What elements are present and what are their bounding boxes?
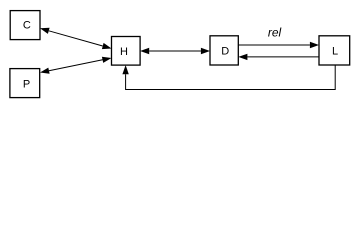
wire L-D (arrow) xyxy=(238,54,319,60)
node D xyxy=(210,36,238,65)
node C xyxy=(10,11,40,40)
svg-text:P: P xyxy=(23,78,30,90)
svg-text:C: C xyxy=(23,19,31,31)
wire P-H (double arrow) xyxy=(40,57,112,74)
svg-text:rel: rel xyxy=(268,26,282,40)
wire H-D (double arrow) xyxy=(140,48,210,54)
svg-text:H: H xyxy=(120,46,128,58)
wire L-H feedback (arrow into H bottom) xyxy=(122,65,335,90)
node L xyxy=(319,36,350,65)
svg-text:D: D xyxy=(221,46,229,58)
svg-text:L: L xyxy=(332,46,338,58)
node H xyxy=(112,37,141,66)
wire D-L (rel arrow) xyxy=(238,42,319,48)
wire C-H (double arrow) xyxy=(40,28,112,49)
node P xyxy=(10,69,40,98)
